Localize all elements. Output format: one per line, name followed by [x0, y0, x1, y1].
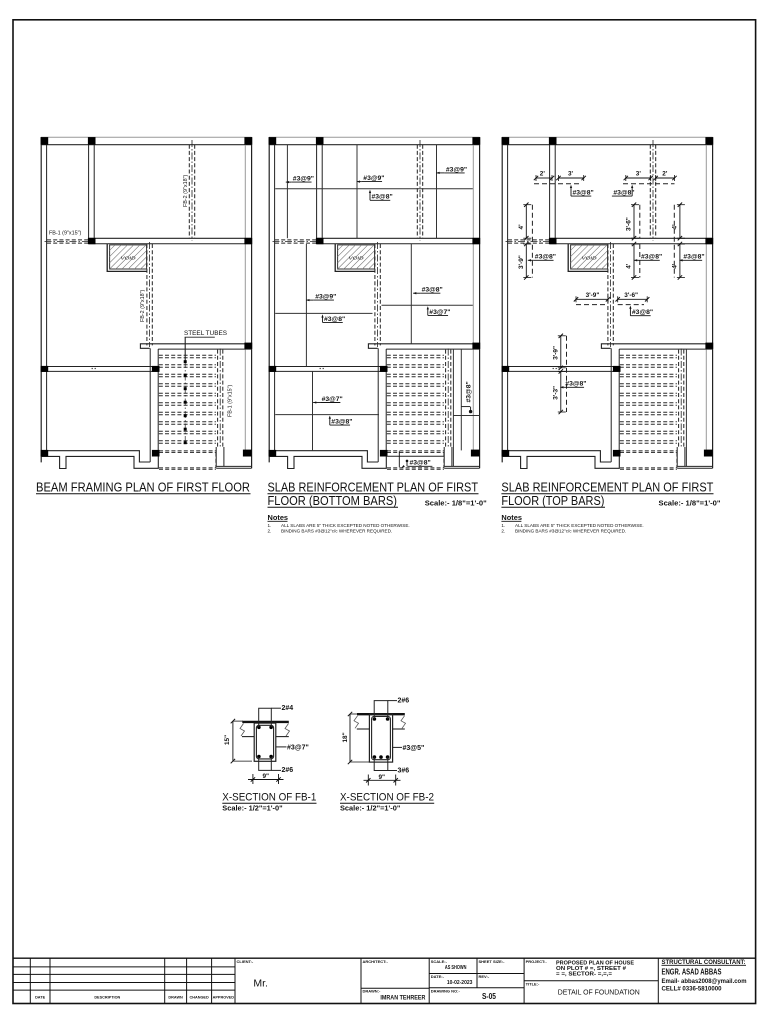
- svg-text:#3@7": #3@7": [287, 745, 309, 752]
- svg-text:4': 4': [626, 263, 633, 269]
- dim 3-9 mid block: [576, 298, 608, 300]
- svg-text:#3@8": #3@8": [465, 381, 472, 402]
- fb1 stirrup label: [276, 746, 287, 748]
- svg-text:REV:-: REV:-: [479, 974, 490, 979]
- wall right of stairs bottom: [676, 447, 678, 466]
- beam FB-2 dashed top room: [416, 145, 418, 239]
- svg-text:STRUCTURAL CONSULTANT:: STRUCTURAL CONSULTANT:: [662, 959, 746, 966]
- void opening hatched: [568, 244, 608, 271]
- steel tube dots: [184, 361, 186, 444]
- svg-text:15": 15": [224, 735, 231, 745]
- svg-text:2.: 2.: [268, 528, 272, 533]
- svg-text:10-02-2023: 10-02-2023: [447, 980, 473, 986]
- wall right: [705, 145, 707, 451]
- wall stair left: [610, 348, 612, 462]
- fb1 slab break marks: [240, 724, 245, 737]
- top bar dashed left: [534, 183, 581, 185]
- svg-text:VOID: VOID: [121, 255, 137, 260]
- vert dim 3-9 left lower: [525, 244, 527, 278]
- wall middle horizontal: [317, 237, 480, 239]
- svg-text:APPROVED: APPROVED: [213, 996, 235, 1000]
- svg-text:BINDING BARS #3@12"c/c WHEREVE: BINDING BARS #3@12"c/c WHEREVER REQUIRED…: [281, 528, 392, 533]
- dim 3ft top left: [559, 177, 584, 179]
- beam FB-1 dashed right of stairs: [678, 350, 680, 447]
- svg-text:ALL SLABS ARE 5" THICK EXCEPTE: ALL SLABS ARE 5" THICK EXCEPTED NOTED OT…: [515, 523, 644, 528]
- svg-text:SHEET SIZE:-: SHEET SIZE:-: [479, 959, 506, 964]
- svg-text:3'-6": 3'-6": [626, 217, 633, 231]
- architect box: [428, 958, 430, 1003]
- svg-text:IMRAN TEHREER: IMRAN TEHREER: [380, 994, 425, 1001]
- beam FB-1 dashed at mid wall: [275, 239, 317, 241]
- svg-text:2#4: 2#4: [282, 705, 294, 712]
- vert dash right: [673, 205, 675, 278]
- svg-text:BINDING BARS #3@12"c/c WHEREVE: BINDING BARS #3@12"c/c WHEREVER REQUIRED…: [515, 528, 626, 533]
- fb2 stirrup label: [393, 746, 402, 748]
- svg-text:BEAM FRAMING PLAN OF FIRST FLO: BEAM FRAMING PLAN OF FIRST FLOOR: [36, 480, 250, 494]
- beam FB-2 dashed top room: [649, 145, 651, 239]
- wall right of stairs bottom: [443, 447, 445, 466]
- beam FB-1 dashed at mid wall: [508, 239, 550, 241]
- svg-text:#3@8": #3@8": [565, 381, 586, 388]
- svg-text:ALL SLABS ARE 5" THICK EXCEPTE: ALL SLABS ARE 5" THICK EXCEPTED NOTED OT…: [281, 523, 410, 528]
- wall left: [501, 137, 503, 462]
- svg-text:4': 4': [518, 224, 525, 230]
- svg-text:3'-9": 3'-9": [518, 255, 525, 269]
- svg-text:PROJECT:-: PROJECT:-: [526, 959, 548, 964]
- svg-text:2': 2': [540, 171, 546, 178]
- wall mid-left room: [502, 366, 620, 368]
- fb2 slab break marks: [354, 716, 359, 729]
- fb1 beam outline: [254, 723, 276, 761]
- svg-text:1.: 1.: [501, 523, 505, 528]
- fb2 bottom 3#6: [374, 757, 388, 770]
- wall above stairs: [601, 344, 712, 349]
- wall above stairs: [140, 344, 251, 349]
- svg-text:#3@8": #3@8": [573, 190, 594, 197]
- wall right of stairs bottom: [215, 447, 217, 466]
- svg-text:#3@5": #3@5": [403, 745, 425, 752]
- wall bottom: [41, 451, 150, 462]
- svg-text:#3@9": #3@9": [446, 166, 467, 173]
- fb2 beam outline: [369, 714, 392, 762]
- svg-text:Scale:- 1/2"=1'-0": Scale:- 1/2"=1'-0": [222, 803, 283, 812]
- svg-text:#3@8": #3@8": [422, 287, 443, 294]
- mid bar dashed b: [618, 304, 644, 306]
- svg-text:X-SECTION OF FB-1: X-SECTION OF FB-1: [222, 792, 316, 804]
- svg-text:18": 18": [342, 732, 349, 742]
- fb1 dim 9in: [252, 774, 254, 784]
- void opening hatched: [107, 244, 147, 271]
- top bar dashed right: [623, 183, 675, 185]
- svg-text:2': 2': [662, 171, 668, 178]
- svg-text:3'-3": 3'-3": [553, 386, 560, 400]
- fb1 bottom 2#6: [259, 757, 272, 770]
- vert dim 4ft left: [525, 205, 527, 239]
- svg-text:Scale:- 1/8"=1'-0": Scale:- 1/8"=1'-0": [659, 498, 721, 507]
- svg-text:Scale:- 1/2"=1'-0": Scale:- 1/2"=1'-0": [340, 803, 401, 812]
- vert dim 4ft right: [679, 205, 681, 239]
- svg-text:4': 4': [672, 263, 679, 269]
- stair shaft dashed bottom: [620, 450, 677, 452]
- fb2 top bars: [373, 717, 377, 721]
- svg-text:VOID: VOID: [349, 255, 365, 260]
- fb1 slab: [242, 721, 288, 723]
- svg-text:FB-1 (9"x15"): FB-1 (9"x15"): [228, 385, 234, 417]
- svg-text:#3@9": #3@9": [315, 294, 336, 301]
- svg-text:2#6: 2#6: [282, 767, 294, 774]
- beam FB-1 dashed at mid wall: [47, 239, 89, 241]
- fb1 dim 15in: [232, 721, 234, 761]
- svg-text:Mr.: Mr.: [253, 978, 268, 990]
- wall middle horizontal: [550, 237, 713, 239]
- svg-text:#3@8": #3@8": [535, 254, 556, 261]
- stair shaft dashed bottom: [159, 450, 216, 452]
- svg-text:DRAWN: DRAWN: [168, 996, 183, 1000]
- vert dim 4ft mid lower: [633, 244, 635, 278]
- svg-text:DETAIL OF FOUNDATION: DETAIL OF FOUNDATION: [558, 987, 640, 996]
- stair shaft dashed bottom: [387, 450, 444, 452]
- wall second vertical: [88, 145, 90, 239]
- svg-text:3': 3': [568, 171, 574, 178]
- svg-text:Email- abbas2008@ymail.com: Email- abbas2008@ymail.com: [662, 979, 747, 985]
- wall top: [41, 136, 252, 138]
- beam FB-2 dashed top room: [188, 145, 190, 239]
- wall second vertical: [549, 145, 551, 239]
- svg-text:#3@9": #3@9": [363, 175, 384, 182]
- project box: [657, 958, 659, 1003]
- svg-text:Scale:- 1/8"=1'-0": Scale:- 1/8"=1'-0": [425, 498, 487, 507]
- svg-text:Notes: Notes: [268, 513, 289, 522]
- svg-text:9": 9": [263, 773, 270, 780]
- svg-text:3'-6": 3'-6": [624, 292, 638, 299]
- svg-text:DRAWN:-: DRAWN:-: [363, 989, 381, 994]
- svg-text:DATE:-: DATE:-: [431, 974, 445, 979]
- svg-text:#3@8": #3@8": [613, 190, 634, 197]
- svg-text:DESCRIPTION: DESCRIPTION: [94, 996, 120, 1000]
- wall right: [244, 145, 246, 451]
- svg-text:3#6: 3#6: [398, 767, 410, 774]
- svg-text:9": 9": [379, 774, 386, 781]
- svg-text:DRAWING NO:-: DRAWING NO:-: [431, 988, 461, 993]
- bar lines plan 2: [286, 145, 288, 239]
- svg-text:#3@8": #3@8": [410, 460, 431, 467]
- client box: [360, 958, 362, 1003]
- svg-text:STEEL TUBES: STEEL TUBES: [184, 330, 227, 337]
- svg-text:FB-2 (9"x18"): FB-2 (9"x18"): [140, 290, 146, 322]
- svg-text:ENGR. ASAD ABBAS: ENGR. ASAD ABBAS: [662, 967, 722, 977]
- scale date drawing boxes: [476, 958, 478, 988]
- svg-text:1.: 1.: [268, 523, 272, 528]
- svg-text:4': 4': [672, 224, 679, 230]
- svg-text:FLOOR (BOTTOM BARS): FLOOR (BOTTOM BARS): [268, 494, 398, 508]
- svg-text:SLAB REINFORCEMENT PLAN OF FIR: SLAB REINFORCEMENT PLAN OF FIRST: [501, 480, 713, 494]
- wall mid-left room: [41, 366, 159, 368]
- svg-text:#3@7": #3@7": [322, 396, 343, 403]
- void opening hatched: [335, 244, 375, 271]
- svg-text:ARCHITECT:-: ARCHITECT:-: [363, 959, 389, 964]
- beam FB-1 dashed right of stairs: [217, 350, 219, 447]
- stair treads dashed: [387, 354, 444, 356]
- svg-text:#3@8": #3@8": [632, 309, 653, 316]
- svg-text:= =, SECTOR- =,=,=: = =, SECTOR- =,=,=: [556, 971, 613, 977]
- svg-text:#3@8": #3@8": [641, 254, 662, 261]
- svg-text:DATE: DATE: [35, 996, 46, 1000]
- svg-text:SLAB REINFORCEMENT PLAN OF FIR: SLAB REINFORCEMENT PLAN OF FIRST: [268, 480, 479, 494]
- wall stair left: [377, 348, 379, 462]
- wall bottom: [269, 451, 378, 462]
- svg-text:#3@8": #3@8": [324, 316, 345, 323]
- wall right: [472, 145, 474, 451]
- svg-text:CELL# 0336-5810000: CELL# 0336-5810000: [662, 986, 722, 993]
- beam FB-2 dashed below void: [146, 244, 148, 345]
- beam FB-1 dashed right of stairs: [445, 350, 447, 447]
- columns: [41, 137, 49, 145]
- wall top: [269, 136, 480, 138]
- svg-text:3'-9": 3'-9": [553, 346, 560, 360]
- fb2 dim 9in: [367, 775, 369, 786]
- dim 3-6 mid block: [618, 298, 648, 300]
- wall left: [40, 137, 42, 462]
- beam FB-2 dashed below void: [607, 244, 609, 345]
- svg-text:AS SHOWN: AS SHOWN: [445, 965, 467, 971]
- svg-text:#3@7": #3@7": [429, 309, 450, 316]
- columns: [269, 137, 277, 145]
- wall top: [502, 136, 713, 138]
- svg-text:#3@9": #3@9": [293, 176, 314, 183]
- stair treads dashed: [159, 354, 216, 356]
- wall second vertical: [316, 145, 318, 239]
- svg-text:3'-9": 3'-9": [586, 292, 600, 299]
- wall mid-left room: [269, 366, 387, 368]
- vert dash left wall: [566, 336, 568, 412]
- svg-text:3': 3': [636, 171, 642, 178]
- vert dash mid: [639, 205, 641, 239]
- svg-text:S-05: S-05: [482, 991, 496, 1001]
- svg-text:X-SECTION OF FB-2: X-SECTION OF FB-2: [340, 792, 434, 804]
- dim 2ft top right: [656, 177, 675, 179]
- fb2 stirrup: [372, 716, 391, 759]
- fb2 dim 18in: [349, 714, 351, 762]
- fb2 bottom bars: [373, 755, 377, 759]
- wall bottom: [502, 451, 611, 462]
- vert dim 4ft right lower: [679, 244, 681, 278]
- columns: [502, 137, 510, 145]
- svg-text:FB-1 (9"x15"): FB-1 (9"x15"): [49, 231, 81, 237]
- wall left: [268, 137, 270, 462]
- landing wall line: [685, 349, 687, 466]
- svg-text:SCALE:-: SCALE:-: [431, 959, 448, 964]
- fb1 stirrup: [256, 725, 273, 759]
- slab edge across stair shaft: [386, 455, 444, 457]
- revision table: [13, 966, 235, 968]
- svg-text:CLIENT:-: CLIENT:-: [237, 959, 254, 964]
- svg-text:Notes: Notes: [501, 513, 522, 522]
- fb1 top bars: [257, 726, 261, 730]
- svg-text:CHANGED: CHANGED: [189, 996, 208, 1000]
- svg-text:#3@8": #3@8": [683, 254, 704, 261]
- wall middle horizontal: [89, 237, 252, 239]
- svg-text:TITLE:-: TITLE:-: [526, 981, 540, 986]
- svg-text:#3@8": #3@8": [372, 194, 393, 201]
- dim 3ft top right: [626, 177, 651, 179]
- svg-text:FLOOR (TOP BARS): FLOOR (TOP BARS): [501, 494, 604, 508]
- svg-text:2#6: 2#6: [398, 697, 410, 704]
- fb1 hanger 2#4: [259, 708, 272, 727]
- vert dim 3-9 left wall: [560, 336, 562, 368]
- fb1 bottom bars: [257, 755, 261, 759]
- mid bar dashed: [576, 304, 608, 306]
- svg-text:2.: 2.: [501, 528, 505, 533]
- fb2 hanger 2#6: [374, 701, 388, 719]
- dim 2ft top left: [536, 177, 552, 179]
- vert dash left: [531, 205, 533, 278]
- svg-text:VOID: VOID: [582, 255, 598, 260]
- wall stair left: [149, 348, 151, 462]
- fb2 slab: [357, 713, 405, 715]
- vert dash mid lower: [639, 244, 641, 278]
- vert dim 3-3 left wall: [560, 371, 562, 412]
- stair treads dashed: [620, 354, 677, 356]
- wall above stairs: [368, 344, 479, 349]
- svg-text:#3@8": #3@8": [331, 419, 352, 426]
- svg-text:FB-2 (9"x18"): FB-2 (9"x18"): [183, 175, 189, 207]
- beam FB-2 dashed below void: [374, 244, 376, 345]
- title block frame: [13, 957, 756, 959]
- vert dim 3-6 mid: [633, 205, 635, 239]
